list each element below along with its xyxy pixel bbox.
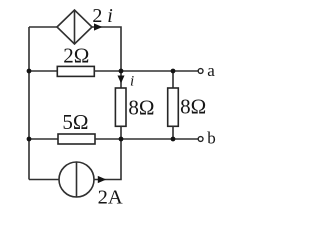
- arrow current i downward: [118, 76, 125, 84]
- resistor R1 2ohm body: [57, 66, 94, 76]
- terminal b circle: [198, 137, 203, 142]
- junction node row3 right: [171, 137, 176, 142]
- svg-text:i: i: [130, 73, 134, 89]
- wire top from left corner to diamond: [29, 26, 57, 28]
- svg-text:b: b: [207, 129, 216, 148]
- arrow current direction 2i: [94, 23, 102, 30]
- dependent current source D1 (2i) diamond: [57, 10, 92, 44]
- terminal a circle: [198, 69, 203, 74]
- junction node row2 mid: [119, 69, 124, 74]
- dependent source internal bar: [74, 10, 76, 44]
- wire row b (5ohm to terminal b): [95, 138, 198, 140]
- junction node row2 right: [171, 69, 176, 74]
- wire mid node down to 8ohm R2: [120, 71, 122, 88]
- svg-text:8Ω: 8Ω: [180, 95, 206, 119]
- current source I1 2A circle: [59, 162, 94, 197]
- wire row2 right of 2ohm to mid node: [94, 70, 121, 72]
- wire row a (mid node to terminal a): [121, 70, 198, 72]
- svg-text:2Ω: 2Ω: [63, 44, 89, 68]
- wire 8ohm R3 top lead: [172, 71, 174, 88]
- junction node row3 left: [27, 137, 32, 142]
- resistor R4 5ohm body: [58, 134, 95, 144]
- resistor R3 8ohm body: [168, 88, 179, 126]
- wire below R3 to row b: [172, 126, 174, 139]
- svg-text:2: 2: [92, 5, 102, 27]
- wire top from diamond to corner and down to node: [92, 27, 121, 71]
- wire row3 left (node to 5ohm resistor): [29, 138, 58, 140]
- svg-text:2A: 2A: [98, 187, 123, 209]
- svg-text:i: i: [107, 5, 113, 27]
- resistor R2 8ohm body: [115, 88, 126, 126]
- wire left vertical: [28, 27, 30, 180]
- wire bottom left lead of source: [29, 179, 59, 181]
- current source internal bar: [76, 162, 78, 197]
- wire below R2 to row b: [120, 126, 122, 139]
- wire mid column row b down to bottom corner: [94, 139, 121, 180]
- svg-text:5Ω: 5Ω: [62, 110, 88, 134]
- svg-text:8Ω: 8Ω: [128, 96, 154, 120]
- wire row2 left (node to 2ohm resistor): [29, 70, 57, 72]
- junction node row2 left: [27, 69, 32, 74]
- arrow current direction 2A: [98, 176, 106, 183]
- junction node row3 mid: [119, 137, 124, 142]
- svg-text:a: a: [207, 61, 215, 80]
